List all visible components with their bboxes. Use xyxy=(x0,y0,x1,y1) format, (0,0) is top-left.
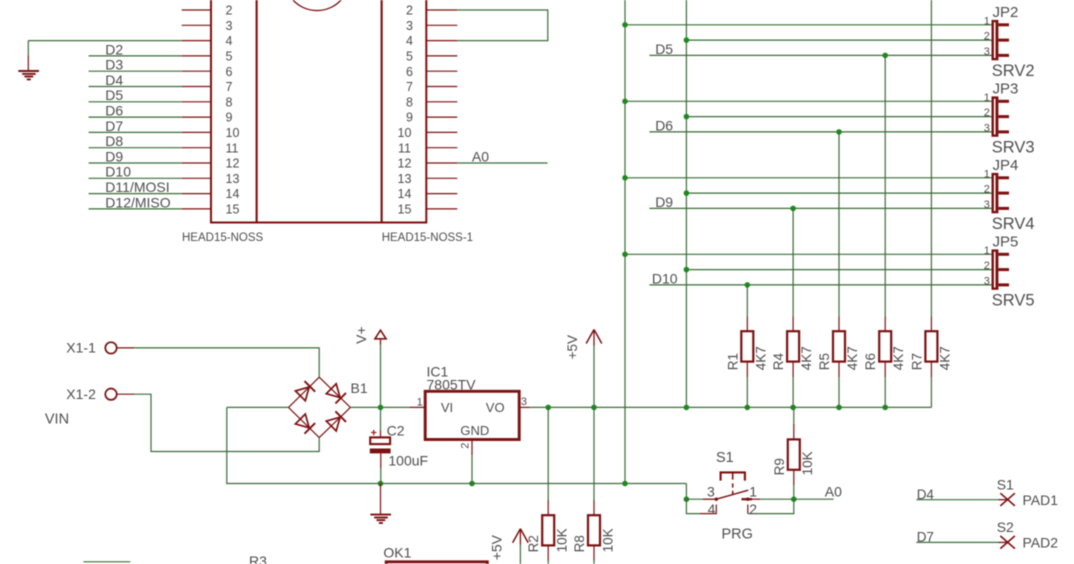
svg-text:JP2: JP2 xyxy=(993,4,1019,21)
svg-text:3: 3 xyxy=(984,46,990,58)
wire D10 signal column xyxy=(746,285,748,317)
svg-text:14: 14 xyxy=(226,187,240,201)
svg-text:13: 13 xyxy=(398,172,412,186)
svg-text:5: 5 xyxy=(226,50,233,64)
JP5 pin 2 pad xyxy=(998,268,1009,271)
wire net D12/MISO xyxy=(89,208,182,210)
svg-text:D7: D7 xyxy=(105,118,123,134)
junction IC1 gnd xyxy=(469,481,475,487)
header left pin numbers xyxy=(226,4,240,217)
svg-text:9: 9 xyxy=(406,111,413,125)
resistor R9 body xyxy=(793,424,795,439)
wire pin2-pin4 loop xyxy=(457,10,548,41)
wire servo gnd bus x625 xyxy=(624,0,626,484)
S1 lever xyxy=(716,490,748,499)
wire rail to R2 xyxy=(547,407,549,500)
svg-text:12: 12 xyxy=(226,157,240,171)
wire bridge to IC1 pin1 xyxy=(350,406,409,408)
svg-text:1: 1 xyxy=(984,245,990,257)
wire IC1 gnd xyxy=(471,455,473,483)
terminal X1-2 circle xyxy=(105,389,116,400)
junction net D5 xyxy=(882,53,888,59)
svg-text:D2: D2 xyxy=(105,41,123,57)
wire bottom left stub xyxy=(83,561,130,563)
svg-text:4K7: 4K7 xyxy=(937,346,952,370)
svg-text:2: 2 xyxy=(226,4,233,18)
svg-text:PAD2: PAD2 xyxy=(1023,535,1059,551)
diode B1 top-left xyxy=(295,387,309,401)
svg-text:D6: D6 xyxy=(105,103,123,119)
wire X1-2 to bridge bottom xyxy=(134,394,319,451)
junction +5V rail x839 xyxy=(836,405,842,411)
svg-text:2: 2 xyxy=(984,107,990,119)
svg-text:VO: VO xyxy=(486,400,505,415)
JP3 pin 1 pad xyxy=(998,100,1009,103)
svg-text:4K7: 4K7 xyxy=(753,346,768,370)
bridge B1 diamond xyxy=(289,377,320,407)
svg-text:3: 3 xyxy=(984,276,990,288)
svg-text:JP5: JP5 xyxy=(993,234,1019,251)
svg-text:D12/MISO: D12/MISO xyxy=(105,194,170,210)
JP4 pin 1 pad xyxy=(998,176,1009,179)
pad S2 stub xyxy=(999,541,1008,543)
wire net A0 stub xyxy=(457,162,547,164)
pad S1 stub xyxy=(999,499,1008,501)
wire R2 bottom xyxy=(547,561,549,564)
ground GND1 stub xyxy=(27,56,29,70)
svg-text:GND: GND xyxy=(460,423,489,438)
wire +5V arrow to rail xyxy=(593,346,595,408)
svg-text:X1-1: X1-1 xyxy=(66,340,96,356)
svg-text:4K7: 4K7 xyxy=(891,346,906,370)
supply +5V arrow bottom xyxy=(513,529,521,543)
svg-text:2: 2 xyxy=(984,260,990,272)
junction +5V rail x594 xyxy=(591,405,597,411)
svg-text:7: 7 xyxy=(226,80,233,94)
wire pin4 to ground xyxy=(28,40,181,42)
svg-text:OK1: OK1 xyxy=(383,545,411,561)
JP5 pin 3 pad xyxy=(998,283,1009,286)
svg-text:14: 14 xyxy=(398,187,412,201)
wire servo +5V bus x686 xyxy=(685,0,687,407)
svg-text:D3: D3 xyxy=(105,57,123,73)
wire V+ to node xyxy=(380,345,382,408)
IC notch xyxy=(293,0,341,11)
diode B1 top-right xyxy=(326,384,340,398)
IC U1 header body middle section xyxy=(257,0,382,223)
junction JP2 pin1 bus xyxy=(622,22,628,28)
wire JP2 pin2 row xyxy=(686,39,991,41)
wire S1 to A0 xyxy=(760,498,794,500)
svg-text:JP4: JP4 xyxy=(993,157,1019,174)
svg-text:15: 15 xyxy=(226,203,240,217)
svg-text:10K: 10K xyxy=(800,451,815,475)
ground GND2 symbol xyxy=(370,514,391,516)
svg-text:4K7: 4K7 xyxy=(845,346,860,370)
svg-text:7: 7 xyxy=(406,80,413,94)
wire node to C2 xyxy=(380,407,382,430)
svg-text:4: 4 xyxy=(226,34,233,48)
svg-text:A0: A0 xyxy=(472,148,489,164)
junction +5V rail x747 xyxy=(745,405,751,411)
svg-text:4: 4 xyxy=(406,34,413,48)
svg-text:JP3: JP3 xyxy=(993,81,1019,98)
junction A0 node xyxy=(791,496,797,502)
svg-text:2: 2 xyxy=(984,184,990,196)
svg-text:10K: 10K xyxy=(555,528,570,552)
JP2 pin 3 pad xyxy=(998,54,1009,57)
wire D9 signal column xyxy=(792,208,794,316)
svg-text:S2: S2 xyxy=(997,519,1014,535)
svg-text:3: 3 xyxy=(521,396,527,408)
svg-text:1: 1 xyxy=(984,168,990,180)
junction C2 gnd xyxy=(378,481,384,487)
capacitor C2 bottom plate xyxy=(370,449,391,454)
wire net D8 xyxy=(89,147,182,149)
header right pin stubs 2-15 xyxy=(426,10,457,209)
op-amp IC1 box xyxy=(425,391,519,439)
svg-text:+5V: +5V xyxy=(565,335,580,359)
capacitor C2 plus xyxy=(371,432,376,434)
wire net D9 JP4 pin3 row xyxy=(649,207,991,209)
svg-text:R5: R5 xyxy=(817,353,832,370)
wire rail to R9 xyxy=(793,407,795,424)
wire net D4 xyxy=(89,86,182,88)
wire net D11/MOSI xyxy=(89,193,182,195)
svg-text:11: 11 xyxy=(398,141,411,155)
svg-text:10: 10 xyxy=(226,126,240,140)
svg-text:HEAD15-NOSS: HEAD15-NOSS xyxy=(182,232,263,244)
svg-text:R4: R4 xyxy=(771,353,786,371)
IC1 pin1 stub xyxy=(409,406,425,408)
svg-text:3: 3 xyxy=(984,123,990,135)
ground GND2 stub xyxy=(380,484,382,514)
svg-text:R6: R6 xyxy=(863,353,878,370)
S1 pin3 stub xyxy=(703,498,716,500)
svg-text:8: 8 xyxy=(406,95,413,109)
svg-text:R3: R3 xyxy=(249,553,267,564)
svg-text:VIN: VIN xyxy=(45,411,69,427)
IC U1 header body right section xyxy=(382,0,427,223)
svg-text:D10: D10 xyxy=(652,270,678,286)
svg-text:SRV2: SRV2 xyxy=(992,62,1035,80)
svg-text:1: 1 xyxy=(984,92,990,104)
wire JP2 pin1 row xyxy=(625,24,992,26)
resistor R5 body xyxy=(838,317,840,332)
svg-text:PAD1: PAD1 xyxy=(1023,492,1059,508)
svg-text:HEAD15-NOSS-1: HEAD15-NOSS-1 xyxy=(382,232,473,244)
svg-text:X1-2: X1-2 xyxy=(66,386,96,402)
svg-text:R9: R9 xyxy=(772,458,787,475)
wire D5 signal column xyxy=(884,55,886,316)
S1 actuator xyxy=(721,472,745,480)
svg-text:D4: D4 xyxy=(917,487,935,502)
wire net D10 xyxy=(89,177,182,179)
svg-text:13: 13 xyxy=(226,172,240,186)
svg-text:1: 1 xyxy=(984,15,990,27)
wire net D6 xyxy=(89,116,182,118)
wire net D6 JP3 pin3 row xyxy=(649,131,991,133)
resistor R7 body xyxy=(930,317,932,332)
header left pin stubs 2-15 xyxy=(182,10,211,209)
supply +5V arrow xyxy=(586,330,594,344)
junction JP3 pin2 bus xyxy=(684,114,690,120)
svg-text:D7: D7 xyxy=(917,530,934,545)
wire D6 signal column xyxy=(838,132,840,317)
wire JP3 pin1 row xyxy=(625,100,992,102)
svg-text:1: 1 xyxy=(749,484,757,500)
wire net D10 JP5 pin3 row xyxy=(649,284,991,286)
svg-text:3: 3 xyxy=(406,19,413,33)
wire JP5 pin1 row xyxy=(625,253,992,255)
connector JP3 body xyxy=(992,96,999,136)
svg-text:2: 2 xyxy=(460,443,472,449)
svg-text:D5: D5 xyxy=(655,41,673,57)
svg-text:3: 3 xyxy=(707,484,715,500)
svg-text:10: 10 xyxy=(398,126,412,140)
svg-text:D9: D9 xyxy=(655,194,673,210)
junction net D6 xyxy=(836,129,842,135)
junction JP5 pin2 bus xyxy=(684,267,690,273)
svg-text:2: 2 xyxy=(749,501,757,517)
JP4 pin 2 pad xyxy=(998,192,1009,195)
connector JP5 body xyxy=(992,249,999,289)
svg-text:1: 1 xyxy=(417,396,423,408)
capacitor C2 top plate xyxy=(370,437,390,444)
wire JP4 pin2 row xyxy=(686,192,991,194)
junction +5V rail x686 xyxy=(684,405,690,411)
svg-text:+5V: +5V xyxy=(489,534,505,560)
svg-text:SRV4: SRV4 xyxy=(992,215,1035,233)
wire net D4 xyxy=(916,499,998,501)
wire net D9 xyxy=(89,162,182,164)
wire X1-1 to bridge top xyxy=(134,348,319,377)
svg-text:11: 11 xyxy=(226,141,239,155)
svg-text:R1: R1 xyxy=(725,353,740,370)
junction JP3 pin1 bus xyxy=(622,99,628,105)
IC1 pin2 stub xyxy=(471,440,473,456)
svg-text:4: 4 xyxy=(708,501,716,517)
wire net D5 xyxy=(89,101,182,103)
svg-text:R7: R7 xyxy=(909,353,924,370)
svg-text:VI: VI xyxy=(441,400,453,415)
svg-text:100uF: 100uF xyxy=(388,453,428,469)
IC U1 header body left section xyxy=(211,0,257,223)
junction V+ node xyxy=(378,405,384,411)
junction JP4 pin1 bus xyxy=(622,175,628,181)
S1 pin1 contact xyxy=(746,498,749,501)
svg-text:5: 5 xyxy=(406,50,413,64)
svg-text:10K: 10K xyxy=(601,528,616,552)
junction S1 pin3 node xyxy=(684,496,690,502)
pad S2 cross xyxy=(1000,536,1015,549)
S1 pin4 loop xyxy=(686,499,700,513)
IC1 pin3 stub xyxy=(519,406,530,408)
svg-text:D4: D4 xyxy=(105,72,123,88)
wire to S1 pin3 xyxy=(686,498,703,500)
svg-text:D10: D10 xyxy=(105,164,131,180)
svg-text:SRV3: SRV3 xyxy=(992,138,1035,156)
resistor R1 body xyxy=(746,317,748,332)
wire rail to R8 xyxy=(593,407,595,500)
wire net A0 stub right xyxy=(794,498,834,500)
svg-text:12: 12 xyxy=(398,157,412,171)
wire C2 to gnd rail xyxy=(380,468,382,483)
svg-text:6: 6 xyxy=(226,65,233,79)
junction gnd bus x625 xyxy=(622,481,628,487)
svg-text:7805TV: 7805TV xyxy=(427,377,477,393)
svg-text:C2: C2 xyxy=(387,423,405,439)
JP4 pin 3 pad xyxy=(998,207,1009,210)
wire R7 to rail xyxy=(930,377,932,407)
terminal X1-1 stub xyxy=(117,347,134,349)
supply V+ symbol xyxy=(375,330,386,339)
junction +5V rail x548 xyxy=(545,405,551,411)
junction JP2 pin2 bus xyxy=(684,37,690,43)
svg-text:3: 3 xyxy=(226,19,233,33)
wire net D7 xyxy=(916,541,998,543)
wire R5 to rail xyxy=(838,377,840,407)
C2 bottom stub xyxy=(380,453,382,468)
svg-text:A0: A0 xyxy=(825,483,842,499)
terminal X1-1 circle xyxy=(105,342,116,353)
resistor R4 body xyxy=(792,317,794,332)
svg-text:S1: S1 xyxy=(716,450,734,466)
wire R1 to rail xyxy=(746,377,748,407)
diode B1 bottom-right xyxy=(326,417,340,431)
wire net D2 xyxy=(89,55,182,57)
resistor R8 body xyxy=(593,500,595,515)
junction net D10 xyxy=(745,282,751,288)
connector JP4 body xyxy=(992,173,999,213)
wire gnd to S1 xyxy=(685,484,687,500)
wire gnd rail xyxy=(227,407,687,483)
S1 pin1 stub xyxy=(742,498,753,500)
resistor R6 body xyxy=(884,317,886,332)
wire R6 to rail xyxy=(884,377,886,407)
svg-text:D11/MOSI: D11/MOSI xyxy=(105,179,169,195)
svg-text:D5: D5 xyxy=(105,87,123,103)
wire JP4 pin1 row xyxy=(625,177,992,179)
wire net D3 xyxy=(89,70,182,72)
svg-text:D8: D8 xyxy=(105,133,123,149)
svg-text:D9: D9 xyxy=(105,148,123,164)
JP3 pin 2 pad xyxy=(998,115,1009,118)
svg-text:R2: R2 xyxy=(526,535,541,552)
IC1 pin3 to rail wire xyxy=(530,406,931,408)
svg-text:2: 2 xyxy=(984,31,990,43)
diode B1 bottom-left xyxy=(295,414,309,428)
svg-text:V+: V+ xyxy=(353,326,369,344)
JP5 pin 1 pad xyxy=(998,253,1009,256)
JP2 pin 2 pad xyxy=(998,39,1009,42)
S1 pin2 loop xyxy=(747,505,749,514)
svg-text:R8: R8 xyxy=(572,535,587,552)
wire JP3 pin2 row xyxy=(686,116,991,118)
junction +5V rail x885 xyxy=(882,405,888,411)
svg-text:2: 2 xyxy=(406,4,413,18)
pad S1 cross xyxy=(1000,493,1015,506)
junction JP5 pin1 bus xyxy=(622,252,628,258)
connector JP2 body xyxy=(992,20,999,60)
svg-text:B1: B1 xyxy=(351,380,368,396)
junction net D9 xyxy=(790,206,796,212)
svg-text:6: 6 xyxy=(406,65,413,79)
junction +5V rail x793 xyxy=(790,405,796,411)
svg-text:SRV5: SRV5 xyxy=(992,291,1035,309)
terminal X1-2 stub xyxy=(117,393,134,395)
wire bridge left to gnd riser xyxy=(227,406,289,408)
wire R9 to A0 node xyxy=(793,485,795,499)
svg-text:D6: D6 xyxy=(655,117,673,133)
svg-text:S1: S1 xyxy=(997,476,1014,492)
svg-text:9: 9 xyxy=(226,111,233,125)
wire R4 to rail xyxy=(792,377,794,407)
header right pin numbers xyxy=(398,4,413,217)
svg-text:4K7: 4K7 xyxy=(799,346,814,370)
svg-text:3: 3 xyxy=(984,199,990,211)
svg-text:15: 15 xyxy=(398,203,412,217)
svg-text:8: 8 xyxy=(226,95,233,109)
ground GND1 symbol xyxy=(18,70,39,72)
JP2 pin 1 pad xyxy=(998,23,1009,26)
svg-text:PRG: PRG xyxy=(722,527,753,543)
resistor R2 body xyxy=(547,500,549,515)
wire net D7 xyxy=(89,131,182,133)
wire JP5 pin2 row xyxy=(686,269,991,271)
junction JP4 pin2 bus xyxy=(684,190,690,196)
wire SRV1 signal column x931 xyxy=(930,0,932,317)
wire R8 bottom xyxy=(593,561,595,564)
wire +5V bottom stem xyxy=(519,545,521,564)
JP3 pin 3 pad xyxy=(998,130,1009,133)
S1 pin3 contact xyxy=(715,498,718,501)
optocoupler OK1 box top xyxy=(386,562,487,564)
wire net D5 JP2 pin3 row xyxy=(649,54,991,56)
